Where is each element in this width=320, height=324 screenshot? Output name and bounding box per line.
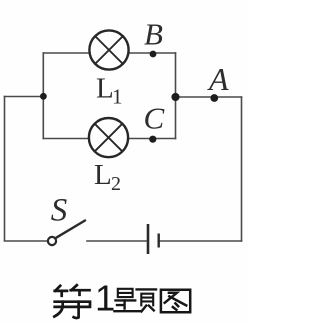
switch S bbox=[48, 221, 85, 246]
junction left node bbox=[40, 93, 47, 100]
svg-text:L: L bbox=[94, 159, 112, 191]
wire right fold vertical bbox=[175, 53, 177, 139]
wire top branch right bbox=[130, 52, 176, 54]
caption character 题 bbox=[114, 289, 156, 312]
wire bottom left bbox=[5, 240, 48, 242]
caption character 第 bbox=[54, 285, 90, 318]
wire L2 branch right bbox=[129, 138, 176, 140]
wire junction up bbox=[42, 53, 44, 97]
label L1 bbox=[96, 73, 123, 109]
svg-text:1: 1 bbox=[95, 278, 115, 319]
wire top-left horizontal bbox=[5, 96, 44, 98]
wire junction down bbox=[42, 97, 44, 139]
wire middle to A bbox=[176, 96, 242, 98]
caption character 图 bbox=[161, 290, 190, 313]
svg-text:C: C bbox=[144, 101, 165, 136]
wire L2 branch left bbox=[43, 138, 88, 140]
svg-text:2: 2 bbox=[111, 173, 121, 195]
node B terminal bbox=[150, 51, 157, 58]
lamp L2 bbox=[89, 118, 128, 157]
label L2 bbox=[94, 159, 121, 195]
junction right node bbox=[171, 93, 179, 101]
wire top branch left bbox=[43, 52, 89, 54]
svg-text:B: B bbox=[144, 17, 163, 52]
wire bottom middle bbox=[87, 240, 147, 242]
node A terminal bbox=[210, 94, 218, 102]
node C terminal bbox=[149, 136, 156, 143]
wire right vertical bbox=[241, 97, 243, 241]
lamp L1 bbox=[89, 30, 128, 69]
svg-text:A: A bbox=[207, 61, 229, 97]
svg-text:S: S bbox=[51, 193, 68, 229]
battery bbox=[148, 224, 159, 254]
wire bottom right bbox=[160, 240, 242, 242]
svg-text:1: 1 bbox=[112, 85, 123, 109]
wire left vertical bbox=[4, 97, 6, 241]
